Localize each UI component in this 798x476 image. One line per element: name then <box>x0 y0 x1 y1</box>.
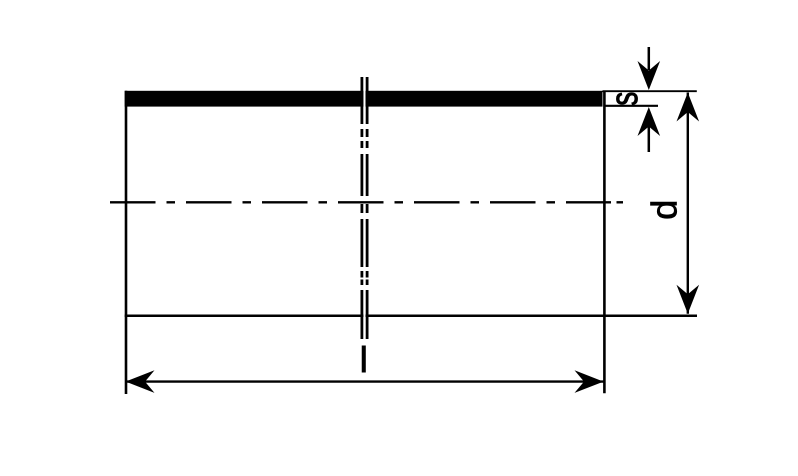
tube wall (solid black top bar) <box>125 91 603 107</box>
bottom edge extended right for d dimension <box>125 314 697 317</box>
d dimension: bottom arrowhead (pointing down) <box>677 285 700 314</box>
s dimension: top reference line <box>603 90 697 92</box>
svg-text:l: l <box>360 339 368 380</box>
svg-text:s: s <box>604 92 646 106</box>
centerline end dot <box>617 201 624 203</box>
s dimension: bottom reference line <box>605 105 659 107</box>
right edge / extension line <box>603 91 606 393</box>
weld seam double line (segmented) <box>362 77 367 339</box>
white gap of seam line crossing the black bar <box>363 90 365 109</box>
d dimension line <box>687 93 689 314</box>
svg-text:d: d <box>644 200 685 220</box>
l dimension: left arrowhead (pointing left) <box>126 370 155 393</box>
l dimension line <box>126 380 604 382</box>
s dimension: upper arrow (pointing down) <box>648 47 651 70</box>
l dimension: right arrowhead (pointing right) <box>575 370 604 393</box>
left edge / extension line <box>125 91 128 394</box>
d dimension: top arrowhead (pointing up) <box>677 93 700 122</box>
s dimension: lower arrow (pointing up) <box>638 107 661 136</box>
horizontal centerline (dash-dot) <box>110 201 611 203</box>
white gap of seam line crossing the bottom edge <box>363 314 365 319</box>
